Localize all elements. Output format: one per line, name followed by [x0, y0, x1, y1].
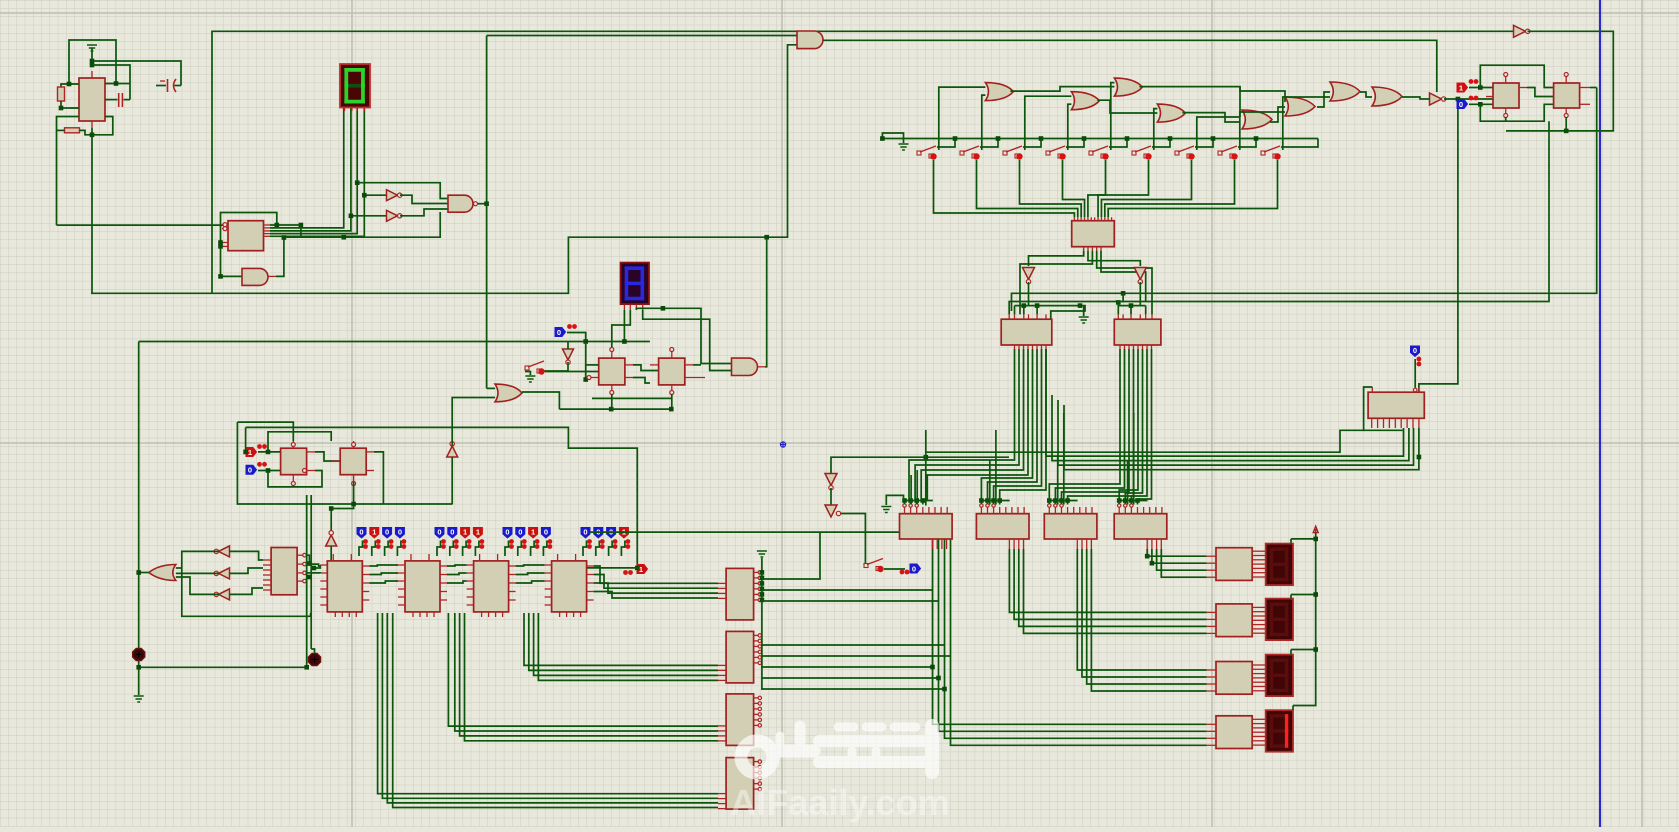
inverter N3 (before FF1) [1430, 93, 1442, 105]
wire probe down [372, 541, 376, 557]
node dot [902, 498, 907, 503]
pin counter left [545, 572, 552, 574]
pin U7 top [1151, 314, 1153, 319]
pin U15 bottom [1160, 539, 1162, 549]
node dot [997, 498, 1002, 503]
pin U11 out [1580, 87, 1590, 89]
pin U17 right [1252, 744, 1266, 746]
svg-text:0: 0 [583, 527, 587, 536]
wire U5 to inverter L [1029, 251, 1084, 266]
pin U14 right [754, 724, 759, 726]
pin counter bottom [481, 612, 483, 617]
wire row0 branch down [300, 225, 302, 238]
wire U15d to drv1 [1147, 549, 1206, 556]
wire switch3 up to gate [1025, 96, 1072, 150]
pin U6 bot [1014, 345, 1016, 349]
node dot [908, 498, 913, 503]
wire counter link b [369, 573, 398, 575]
wire N5 out [1139, 282, 1141, 306]
wire jumper drop [1067, 501, 1069, 505]
probe P (0) [581, 528, 590, 539]
pin U7 bot [1142, 345, 1144, 349]
pin U17 left [1207, 676, 1216, 678]
pin U12 out2 [625, 377, 633, 379]
pin counter right [362, 599, 369, 601]
wire U15a extra drop [910, 475, 912, 505]
pin counter right [509, 565, 516, 567]
pin U11 bot [1565, 108, 1567, 114]
wire U1 pin3 to long vertical [57, 117, 80, 226]
wire bottom link [139, 666, 307, 668]
pin U17 right [1252, 611, 1266, 613]
wire drop U7 c [1145, 306, 1147, 315]
wire drop to U15b [989, 460, 991, 505]
switch SW6 [1132, 151, 1136, 155]
wire U5 to U7b [1101, 251, 1146, 302]
wire drop to U15c2 [1063, 413, 1065, 505]
wire U15b to drv2 [1009, 549, 1206, 612]
wire disp2 p1 down [623, 310, 625, 342]
svg-text:AlFaaily.com: AlFaaily.com [730, 782, 949, 823]
wire disp2 p3 route [636, 308, 731, 363]
pin counter right [509, 599, 516, 601]
node dot [59, 106, 64, 111]
wire jumper drop [1137, 501, 1139, 505]
node dot [936, 676, 941, 681]
node dot [1123, 498, 1128, 503]
node dot [282, 235, 287, 240]
pin U17 left [1207, 569, 1216, 571]
probe P (0) [607, 528, 616, 539]
wire A3 out up [276, 238, 284, 277]
switch SW10 [525, 366, 529, 370]
pin counter right [509, 574, 516, 576]
svg-text:0: 0 [359, 527, 363, 536]
wire switch2 up to gate [982, 95, 986, 150]
wire G3 out long [1139, 87, 1285, 102]
svg-text:0: 0 [450, 527, 454, 536]
wire switch1 to U5 pin [934, 160, 1075, 217]
wire switch7 to U5 pin [1101, 160, 1191, 217]
pin U5 top5 [1087, 217, 1089, 220]
IC U7 [1114, 319, 1161, 345]
pin U15 bottom [1008, 539, 1010, 549]
pin U15 bottom [1076, 539, 1078, 549]
pin counter right [587, 599, 594, 601]
pin U16 top1 [1371, 387, 1373, 392]
pin U7 bot [1133, 345, 1135, 349]
switch SW2 [960, 151, 964, 155]
svg-text:1: 1 [463, 527, 467, 536]
node dot [1022, 303, 1027, 308]
pin counter left [320, 564, 327, 566]
pin U14 left [718, 798, 726, 800]
pin U1 right3 [105, 116, 112, 118]
wire SW10 out [545, 371, 599, 373]
wire P5 vert [585, 342, 587, 380]
wire counter link a [516, 565, 545, 566]
pin U15 top [916, 507, 918, 514]
wire bus to switch [1152, 139, 1170, 148]
pin U6 bot [1032, 345, 1034, 349]
pin counter left [467, 604, 474, 606]
wire U16 left loop [1364, 387, 1403, 430]
pin U17 right [1252, 559, 1266, 561]
node dot [1116, 300, 1121, 305]
pin U17 right [1252, 731, 1266, 733]
pin counter right [509, 591, 516, 593]
probe P (0) [395, 528, 404, 539]
pin circ [1054, 504, 1057, 507]
wire counter4 to U14 [594, 566, 718, 583]
switch SW7 [1175, 151, 1179, 155]
pin U13 out2 [685, 377, 705, 379]
wire bus C [538, 613, 718, 680]
switch SW8 [1218, 151, 1222, 155]
probe P (1) [461, 528, 470, 539]
wire U15b to drv2 [1024, 549, 1207, 633]
pin U3 left [263, 569, 271, 571]
pin counter top2 [497, 554, 499, 561]
OR gate G10 (mirrored) [149, 565, 176, 581]
wire U6 out down [915, 349, 1019, 501]
AND gate A3 [242, 268, 268, 285]
node dot [1129, 303, 1134, 308]
wire vertical pair b [310, 495, 312, 649]
node dot [760, 570, 765, 575]
inverter N1 [387, 190, 398, 201]
pin U14 right [754, 599, 759, 601]
IC U15d [1114, 514, 1167, 539]
wire U14a dots vert [761, 572, 763, 690]
node dot [243, 450, 248, 455]
pin U12 top [611, 351, 613, 358]
pin U14 right [754, 634, 759, 636]
pin counter top2 [575, 554, 577, 561]
IC U4b counter [405, 561, 440, 612]
pin U14 right [754, 577, 759, 579]
wire bus C [534, 613, 718, 675]
wire G10 in a [176, 567, 182, 569]
pin U15 top [1091, 507, 1093, 514]
pin U14 right [754, 571, 759, 573]
pin U5 top4 [1084, 217, 1086, 220]
pin circ [1118, 504, 1121, 507]
OR gate G5 [1242, 110, 1272, 129]
wire bus B [465, 613, 719, 741]
pin U16 bottom [1406, 418, 1408, 428]
pin circ [903, 504, 906, 507]
pin U14 right [754, 713, 759, 715]
wire U16 bottom feed a [1046, 349, 1404, 456]
node dot [764, 235, 769, 240]
wire G8 out to N3 [1402, 97, 1430, 99]
wire probe down [359, 541, 363, 557]
pin U15 top [1005, 507, 1007, 514]
pin U14 left [718, 740, 726, 742]
wire switch1 up to G1 [939, 87, 986, 150]
wire N8 up to OR [452, 398, 495, 447]
inverter N10 [825, 474, 837, 486]
node dot [1053, 498, 1058, 503]
pin U5 top7 [1094, 217, 1096, 220]
pin counter bottom [495, 612, 497, 617]
wire drop U7 a [1117, 302, 1119, 314]
wire net y=457 [831, 457, 1009, 473]
node dot [1168, 136, 1173, 141]
pin U5 bot3 [1091, 247, 1093, 251]
node dot [1078, 303, 1083, 308]
pin U15 bottom [1023, 539, 1025, 549]
node dot [304, 665, 309, 670]
pin U13 top [671, 351, 673, 358]
wire jumper drop [904, 501, 906, 505]
wire outer loop top [237, 422, 293, 441]
wire U12 bot stub [611, 394, 613, 409]
wire U15d to drv1 [1157, 549, 1207, 570]
pin circ [1130, 504, 1133, 507]
node dot pin2 [90, 63, 95, 68]
wire bus to switch [1109, 139, 1127, 148]
pin circ [1048, 504, 1051, 507]
wire U16 bottom feed d [1064, 405, 1419, 470]
pin U17 left [1207, 744, 1216, 746]
wire loop above U2 [221, 213, 277, 247]
wire R1 bottom to pin2 [61, 101, 79, 108]
node dot [266, 450, 271, 455]
wire U5 to inverter R [1088, 251, 1140, 266]
ground symbol above 555 [87, 45, 97, 51]
pin U2 in2 [222, 228, 228, 230]
pin U5 top12 [1111, 217, 1113, 220]
pin counter left [467, 564, 474, 566]
pin U6 bot [1018, 345, 1020, 349]
pin U17 right [1252, 555, 1266, 557]
wire disp2 p4 route [643, 310, 732, 371]
pin U9 out2 [366, 470, 374, 472]
pin U14 right [754, 708, 759, 710]
wire probe down [450, 541, 454, 557]
wire gnd loop U15a [886, 495, 903, 505]
wire stepped net (blue disp to counters) [246, 427, 638, 568]
pin U14 right [754, 772, 759, 774]
node dot [1065, 498, 1070, 503]
wire probe down [397, 541, 401, 557]
pin A4 out [758, 366, 766, 368]
wire long vertical 555 to feedback bus [91, 135, 93, 293]
pin counter right [362, 582, 369, 584]
major grid lines [351, 0, 353, 827]
pin U17 right [1252, 668, 1266, 670]
wire drop U6 c [1036, 306, 1038, 315]
wire drop U6 b [1023, 306, 1025, 315]
wire U9 out right [374, 452, 383, 504]
inverter N13 (mirrored) [219, 568, 230, 579]
pin U14 right [754, 697, 759, 699]
pin U7 bot [1128, 345, 1130, 349]
pin U14 right [754, 777, 759, 779]
pin counter bottom [334, 612, 336, 617]
pin counter bottom [502, 612, 504, 617]
wire probe down [505, 541, 509, 557]
wire disp4 corner drop [1292, 706, 1294, 711]
pin U5 bot4 [1096, 247, 1098, 251]
pin U17 right [1252, 677, 1266, 679]
wire bus A [393, 613, 718, 808]
node dot [880, 136, 885, 141]
node dot [914, 498, 919, 503]
wire switch7 up to gate [1197, 117, 1240, 150]
pin U15 top [993, 507, 995, 514]
wire N11 out [841, 514, 865, 564]
wire bottom FF net [559, 398, 671, 409]
node dot [1564, 129, 1569, 134]
wire right bus y=293 [1012, 88, 1597, 312]
pin U15 bottom [1081, 539, 1083, 549]
buffer N7 (to counter) [326, 535, 337, 546]
pin U17 right [1252, 673, 1266, 675]
wire U15 jumper [905, 500, 933, 502]
pin counter right [587, 574, 594, 576]
pin U16 bottom [1394, 418, 1396, 428]
pin counter bottom [355, 612, 357, 617]
pin U1 bottom [91, 121, 93, 128]
wire drop to U15a [916, 470, 918, 505]
pin U17 left [1207, 669, 1216, 671]
wire inv1 out to NAND [400, 195, 448, 203]
wire jumper drop [999, 501, 1001, 505]
wire disp1 common [1291, 538, 1316, 540]
pin U11 top [1565, 76, 1567, 83]
IC U17b display driver [1216, 604, 1252, 637]
IC U14c [726, 694, 754, 746]
wire U14b out1 [762, 644, 945, 646]
pin U6 bot [1023, 345, 1025, 349]
pin U2 o4 [264, 233, 271, 235]
wire top loop of 555 [69, 40, 116, 84]
buffer N6 (top right) [1514, 25, 1526, 37]
wire P5 down to net [567, 333, 586, 342]
wire display common vert [1293, 533, 1316, 706]
wire probe down [621, 541, 625, 557]
wire SW11 out [884, 568, 905, 570]
wire U11 bottom stub [1565, 117, 1567, 131]
IC U17a display driver [1216, 548, 1252, 581]
wire to cap C2 net [92, 61, 181, 86]
pin counter bottom [580, 612, 582, 617]
pin U15 top [1073, 507, 1075, 514]
pin circ [909, 504, 912, 507]
node dot [1211, 136, 1216, 141]
node dot [622, 339, 627, 344]
pin U17 right [1252, 681, 1266, 683]
pin U14 left [718, 793, 726, 795]
wire U3 r1 [306, 555, 309, 563]
wire U15d to drv1 [1161, 549, 1206, 577]
pin U17 right [1252, 690, 1266, 692]
pin U2 o2 [264, 227, 271, 229]
wire U16 bottom feed b [1052, 395, 1409, 461]
IC U5 [1072, 221, 1115, 247]
pin U7 top [1122, 314, 1124, 319]
wire U2 o4 to display c [270, 107, 357, 234]
wire U7 outb down [1119, 349, 1138, 501]
pin U6 top [1036, 314, 1038, 319]
wire decoder net y=237 [284, 212, 440, 237]
pin U14 right [754, 588, 759, 590]
svg-text:1: 1 [531, 527, 535, 536]
probe P8 (0, above U16) [1411, 346, 1420, 357]
wire N6 out loop [1506, 31, 1613, 131]
node dot [362, 193, 367, 198]
svg-text:0: 0 [544, 527, 548, 536]
pin U14 right [754, 645, 759, 647]
node dot [1456, 97, 1461, 102]
pin counter bottom [566, 612, 568, 617]
node dot [1417, 455, 1422, 460]
pin U12 in2 [591, 377, 599, 379]
pin U6 top [1045, 314, 1047, 319]
pin U1 top [91, 71, 93, 78]
node dot [275, 223, 280, 228]
svg-text:1: 1 [476, 527, 480, 536]
node dot [90, 133, 95, 138]
pin U17 left [1207, 737, 1216, 739]
probe P (0) [435, 528, 444, 539]
watermark line1 (vector shapes) [741, 726, 932, 773]
wire switch8 to U5 pin [1105, 160, 1235, 217]
wire AND3 input net [221, 246, 243, 276]
ground G4 [525, 376, 535, 382]
pin U17 left [1207, 555, 1216, 557]
wire bus to switch [1195, 139, 1213, 148]
wire U2 o5 to display d [270, 107, 364, 236]
wire bus to switch [1238, 139, 1256, 148]
red marker probe P7 (1) [637, 565, 648, 574]
IC U15a [900, 514, 953, 539]
pin counter bottom [433, 612, 435, 617]
IC U6 [1001, 319, 1052, 345]
pin counter top1 [557, 554, 559, 561]
pin U7 top [1145, 314, 1147, 319]
node dot [942, 687, 947, 692]
wire net y=532 [590, 531, 900, 533]
wire U14b out2 [762, 655, 951, 657]
pin counter bottom [559, 612, 561, 617]
node dot [1035, 303, 1040, 308]
node dot [760, 576, 765, 581]
pin U5 top1 [1073, 217, 1075, 220]
wire drop x=925 [925, 430, 927, 506]
probe P (0) [357, 528, 366, 539]
IC U4c counter [474, 561, 509, 612]
wire probe down [475, 541, 479, 557]
pin circ [980, 504, 983, 507]
pin U2 in1 [222, 224, 228, 226]
wire left long vertical x=138 [138, 342, 140, 696]
wire U13 out up [693, 364, 701, 366]
wire bus to switch [980, 139, 998, 148]
pin circ [1124, 504, 1127, 507]
pin U2 o3 [264, 230, 271, 232]
wire U5 to U7 [1097, 251, 1152, 315]
node dot [351, 502, 356, 507]
wire U4 out to P7 [587, 567, 637, 569]
wire U12 left vert [586, 364, 599, 366]
wire U16 bottom feed c [1058, 400, 1414, 465]
watermark line2 [730, 782, 949, 823]
node dot [136, 570, 141, 575]
